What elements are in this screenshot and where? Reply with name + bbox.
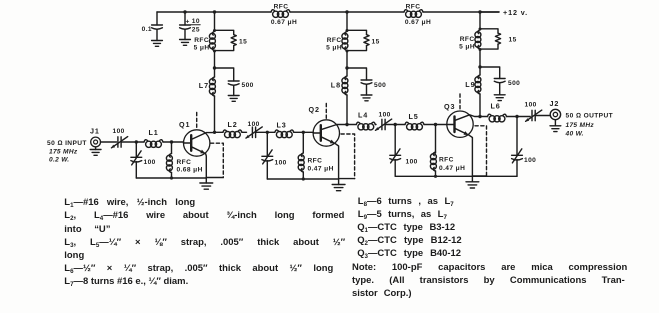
trimmer capacitor 100 shunt stage3: [390, 125, 401, 177]
svg-text:L7: L7: [199, 81, 209, 90]
svg-text:RFC: RFC: [274, 4, 289, 11]
node: [302, 131, 305, 134]
wire: [214, 51, 216, 68]
wire stage2 feed: [346, 12, 348, 31]
wire +12V stub: [480, 11, 499, 13]
label 50 ohm input: [47, 140, 87, 164]
node collector Q1: [213, 131, 216, 134]
RFC 0.47uH stage3: [430, 125, 436, 177]
wire: [535, 115, 550, 117]
dashed stub Q1: [196, 113, 198, 129]
ground: [228, 96, 239, 102]
RFC 0.47uH stage2: [298, 132, 304, 179]
svg-text:L6: L6: [491, 101, 501, 110]
svg-text:RFC: RFC: [327, 37, 342, 44]
label RFC 5uH stage2: [326, 37, 342, 52]
wire stage1 feed: [214, 12, 216, 31]
svg-text:25: 25: [192, 26, 200, 33]
label RFC 0.47uH stage3: [439, 157, 465, 173]
ground: [550, 126, 561, 132]
RFC 5uH stage3: [475, 30, 481, 49]
ground: [180, 40, 191, 46]
svg-text:100: 100: [524, 157, 536, 164]
node: [434, 175, 437, 178]
svg-text:L3: L3: [277, 120, 287, 129]
svg-text:100: 100: [113, 128, 125, 135]
node: [135, 140, 138, 143]
svg-text:RFC: RFC: [406, 4, 421, 11]
note column right: [352, 195, 632, 300]
svg-text:5 μH: 5 μH: [194, 45, 210, 52]
svg-text:L5: L5: [409, 112, 419, 121]
capacitor 500 stage3: [480, 67, 505, 95]
resistor 15 stage3: [480, 29, 501, 49]
ground: [200, 178, 213, 189]
wire stage1 emitter rail: [136, 177, 223, 180]
dashed case box Q2: [341, 134, 355, 179]
svg-text:L4: L4: [358, 111, 368, 120]
RFC choke 0.67uH (right): [404, 10, 423, 18]
node: [170, 140, 173, 143]
capacitor 500 stage1: [215, 68, 240, 96]
svg-text:Q2: Q2: [309, 105, 320, 114]
wire: [101, 141, 117, 143]
trimmer capacitor 100 interstage2: [375, 119, 392, 131]
trimmer capacitor 100 output series: [525, 110, 542, 122]
capacitor 0.1 bypass: [152, 12, 163, 41]
trimmer capacitor 100 shunt stage1: [131, 142, 142, 178]
svg-text:500: 500: [374, 82, 386, 89]
ground: [90, 150, 101, 156]
svg-text:L9: L9: [465, 80, 475, 89]
resistor 15 stage2: [347, 30, 369, 50]
trimmer capacitor 100 shunt stage2: [262, 132, 273, 179]
ground: [361, 95, 372, 101]
svg-text:40 W.: 40 W.: [565, 131, 584, 138]
svg-text:10: 10: [192, 18, 200, 25]
wire: [346, 51, 348, 68]
svg-text:15: 15: [509, 37, 517, 44]
ground: [494, 95, 505, 101]
inductor L6: [480, 114, 517, 122]
svg-text:RFC: RFC: [177, 159, 192, 166]
node: [515, 115, 518, 118]
inductor L5: [395, 122, 435, 130]
dashed stub Q3: [459, 94, 461, 110]
wire: [121, 141, 136, 143]
svg-text:0.67 μH: 0.67 μH: [405, 19, 431, 26]
label RFC 5uH stage3: [459, 36, 475, 51]
resistor 15 stage1: [215, 30, 237, 50]
wire: [385, 124, 395, 126]
svg-text:+: +: [186, 18, 190, 25]
svg-text:100: 100: [379, 112, 391, 119]
node: [394, 123, 397, 126]
node: [266, 131, 269, 134]
dashed stub Q2: [325, 104, 327, 120]
svg-text:L1: L1: [149, 128, 159, 137]
svg-text:0.2 W.: 0.2 W.: [49, 157, 69, 164]
label 50 ohm output: [565, 113, 614, 138]
svg-text:0.67 μH: 0.67 μH: [271, 19, 297, 26]
inductor L7: [209, 68, 215, 132]
trimmer capacitor 100 output shunt: [512, 117, 523, 177]
inductor L4: [347, 122, 376, 130]
svg-text:50 Ω OUTPUT: 50 Ω OUTPUT: [566, 113, 614, 120]
transistor Q1: [184, 130, 215, 178]
note column left: [64, 196, 346, 288]
svg-text:5 μH: 5 μH: [459, 44, 475, 51]
svg-text:100: 100: [144, 159, 156, 166]
wire: [479, 50, 481, 68]
wire: [436, 124, 447, 126]
ground: [466, 176, 479, 188]
svg-text:500: 500: [242, 82, 254, 89]
svg-text:100: 100: [248, 121, 260, 128]
wire stage3 emitter rail: [395, 175, 517, 177]
trimmer capacitor 100 input: [111, 137, 128, 149]
wire: [172, 141, 184, 143]
capacitor 500 stage2: [347, 68, 372, 95]
RFC 0.68uH: [166, 142, 172, 178]
wire top supply rail: [157, 11, 499, 13]
svg-text:RFC: RFC: [308, 158, 323, 165]
label RFC 0.47uH stage2: [308, 158, 334, 173]
wire: [303, 131, 313, 133]
ground: [332, 179, 345, 191]
label RFC 0.68uH: [177, 159, 203, 174]
inductor L2: [215, 130, 247, 138]
node rail dots: [183, 10, 481, 69]
transistor Q3: [447, 111, 480, 176]
node: [434, 123, 437, 126]
label +10/25: [186, 18, 200, 33]
inductor L3: [267, 130, 303, 138]
svg-text:RFC: RFC: [460, 36, 475, 43]
wire: [517, 116, 530, 118]
wire stage3 feed: [479, 12, 481, 29]
svg-text:RFC: RFC: [194, 37, 209, 44]
svg-text:L2: L2: [228, 120, 238, 129]
svg-text:100: 100: [525, 102, 537, 109]
svg-text:J2: J2: [550, 99, 560, 108]
svg-text:0.68 μH: 0.68 μH: [177, 167, 203, 174]
ground: [152, 41, 163, 47]
svg-text:+12 v.: +12 v.: [503, 8, 528, 17]
svg-text:15: 15: [239, 39, 247, 46]
inductor L8: [342, 68, 348, 126]
RFC choke 0.67uH (left): [271, 10, 290, 18]
svg-text:RFC: RFC: [439, 157, 454, 164]
svg-text:L8: L8: [331, 81, 341, 90]
svg-text:0.47 μH: 0.47 μH: [439, 165, 465, 172]
capacitor 10/25 electrolytic: [180, 12, 201, 40]
svg-text:100: 100: [406, 159, 418, 166]
inductor L9: [475, 67, 481, 117]
connector J2: [550, 109, 560, 126]
node collector Q3: [478, 115, 481, 118]
dashed case box Q3: [475, 126, 487, 176]
svg-text:0.1: 0.1: [142, 26, 152, 33]
node collector Q2: [345, 123, 348, 126]
node: [302, 177, 305, 180]
wire: [256, 131, 268, 133]
dashed case box Q1: [211, 143, 224, 177]
svg-text:5 μH: 5 μH: [326, 45, 342, 52]
RFC 5uH stage1: [209, 32, 215, 51]
svg-text:175 MHz: 175 MHz: [49, 149, 78, 156]
connector J1: [91, 137, 101, 149]
wire stage2 emitter rail: [267, 178, 354, 180]
svg-text:Q3: Q3: [444, 102, 455, 111]
svg-text:0.47 μH: 0.47 μH: [308, 166, 334, 173]
svg-text:175 MHz: 175 MHz: [566, 122, 595, 129]
RFC 5uH stage2: [342, 32, 348, 51]
transistor Q2: [313, 120, 347, 179]
svg-text:J1: J1: [90, 127, 100, 136]
label RFC 5uH stage1: [194, 37, 210, 52]
svg-text:500: 500: [508, 80, 520, 87]
trimmer capacitor 100 interstage1: [245, 127, 262, 139]
svg-text:100: 100: [275, 160, 287, 167]
svg-text:50 Ω INPUT: 50 Ω INPUT: [47, 140, 87, 147]
svg-text:15: 15: [372, 39, 380, 46]
svg-text:Q1: Q1: [179, 120, 190, 129]
node: [170, 176, 173, 179]
inductor L1: [136, 140, 171, 148]
